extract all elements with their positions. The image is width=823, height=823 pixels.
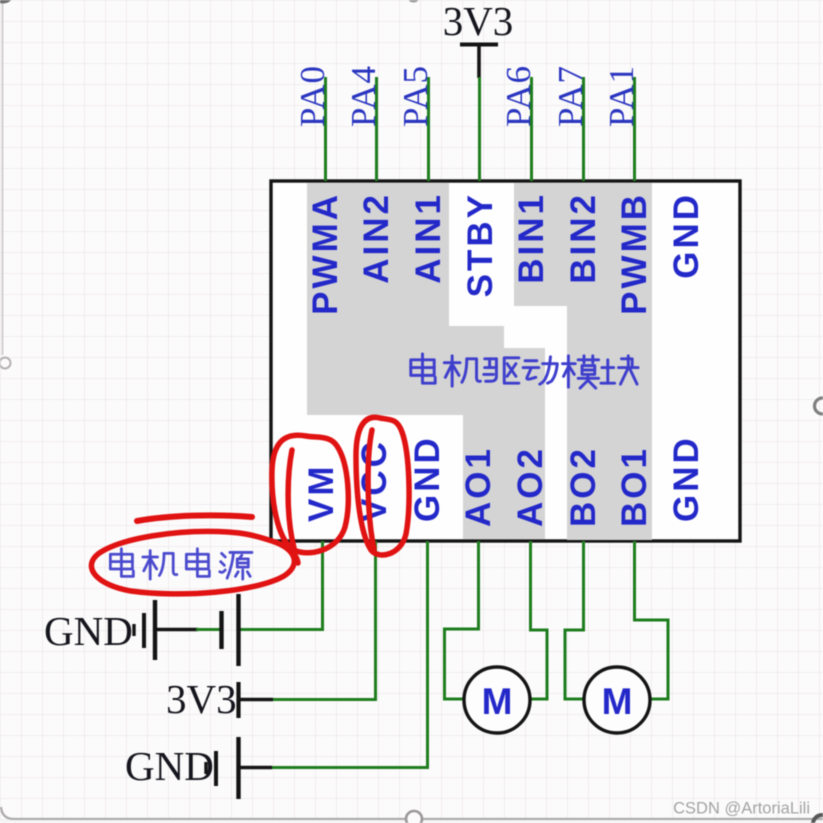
- pin GND top right: [667, 192, 706, 279]
- pin AO2: [511, 446, 550, 527]
- svg-text:BO1: BO1: [615, 446, 654, 527]
- pin PWMB top right: [615, 192, 654, 315]
- power port 3V3 bottom: [166, 676, 273, 722]
- net label PA6: [499, 65, 538, 127]
- canvas left edge guide line: [0, 0, 11, 369]
- motor M1: [464, 667, 530, 733]
- wire net PA6 to pin BIN1: [530, 77, 533, 181]
- net label PA1: [602, 65, 641, 127]
- motor M2: [584, 667, 650, 733]
- wire pin VM to battery positive: [240, 541, 323, 630]
- pin GND bottom left: [408, 435, 447, 522]
- wire pin VCC to 3V3 port: [271, 541, 376, 700]
- wire net PA0 to pin PWMA: [324, 77, 327, 181]
- pin PWMA: [306, 192, 345, 315]
- power port 3V3 top: [443, 0, 514, 78]
- svg-text:BO2: BO2: [564, 446, 603, 527]
- svg-text:STBY: STBY: [461, 192, 500, 297]
- svg-text:PWMB: PWMB: [615, 192, 654, 315]
- net label PA7: [551, 65, 590, 127]
- pin GND bottom right: [667, 435, 706, 522]
- bottom divider line: [0, 807, 823, 823]
- label 电机驱动模块 motor driver module: [411, 354, 638, 388]
- wire net 3V3 to pin STBY: [478, 77, 481, 181]
- svg-text:AIN2: AIN2: [357, 192, 396, 284]
- pin AO1: [459, 446, 498, 527]
- wire net PA4 to pin AIN2: [375, 77, 378, 181]
- red annotation circle around pin VM: [272, 435, 348, 553]
- red annotation circle around pin VCC: [356, 417, 409, 555]
- pin BO1: [615, 446, 654, 527]
- pin BIN1: [512, 192, 551, 284]
- svg-text:AO2: AO2: [511, 446, 550, 527]
- net label PA5: [396, 65, 435, 127]
- wire pin BO2 to motor M2 left: [565, 541, 585, 699]
- svg-text:GND: GND: [667, 435, 706, 522]
- pin VM: [302, 464, 341, 523]
- wire ground GND1 to battery negative: [196, 628, 220, 631]
- svg-text:GND: GND: [125, 743, 214, 789]
- svg-text:AIN1: AIN1: [409, 192, 448, 284]
- net label PA4: [344, 65, 383, 127]
- ground symbol GND1: [44, 600, 198, 660]
- svg-text:BIN1: BIN1: [512, 192, 551, 284]
- red annotation ellipse around 电机电源: [91, 531, 298, 593]
- red annotation underline stroke: [137, 515, 252, 521]
- wire net PA5 to pin AIN1: [427, 77, 430, 181]
- svg-text:AO1: AO1: [459, 446, 498, 527]
- wire pin AO2 to motor M1 right: [531, 541, 548, 699]
- bottom right corner ring: [813, 815, 823, 823]
- watermark CSDN @ArtoriaLili: [673, 800, 810, 818]
- svg-text:GND: GND: [667, 192, 706, 279]
- module body U1: [271, 181, 740, 541]
- svg-text:BIN2: BIN2: [564, 192, 603, 284]
- top-left corner handle: [0, 0, 11, 4]
- svg-text:PA0: PA0: [293, 65, 332, 127]
- wire net PA7 to pin BIN2: [582, 77, 585, 181]
- battery BT1 motor supply: [222, 594, 239, 666]
- svg-text:GND: GND: [44, 608, 133, 654]
- wire net PA1 to pin PWMB: [633, 77, 636, 181]
- wire pin BO1 to motor M2 right: [635, 541, 669, 699]
- svg-text:PA5: PA5: [396, 65, 435, 127]
- pin STBY: [461, 192, 500, 297]
- wire pin AO1 to motor M1 left: [445, 541, 479, 699]
- ground symbol GND2: [125, 737, 272, 799]
- bottom knob ring: [406, 811, 422, 823]
- net label PA0: [293, 65, 332, 127]
- label 电机电源 motor power: [110, 549, 252, 579]
- pin VCC: [355, 439, 394, 522]
- svg-text:3V3: 3V3: [166, 676, 237, 722]
- svg-text:GND: GND: [408, 435, 447, 522]
- pin AIN1: [409, 192, 448, 284]
- module shaded region: [307, 183, 652, 540]
- svg-text:M: M: [482, 681, 513, 722]
- pin BO2: [564, 446, 603, 527]
- pin AIN2: [357, 192, 396, 284]
- svg-text:PA4: PA4: [344, 65, 383, 127]
- svg-text:PA1: PA1: [602, 65, 641, 127]
- right edge ring handle: [815, 398, 823, 414]
- svg-text:3V3: 3V3: [443, 0, 514, 44]
- svg-text:VM: VM: [302, 464, 341, 523]
- pin BIN2: [564, 192, 603, 284]
- svg-text:PWMA: PWMA: [306, 192, 345, 315]
- wire pin GND bottom to ground GND2: [270, 541, 428, 768]
- svg-text:PA7: PA7: [551, 65, 590, 127]
- svg-text:M: M: [602, 681, 633, 722]
- svg-text:CSDN @ArtoriaLili: CSDN @ArtoriaLili: [673, 800, 810, 818]
- svg-text:PA6: PA6: [499, 65, 538, 127]
- top center handle dot: [409, 0, 418, 3]
